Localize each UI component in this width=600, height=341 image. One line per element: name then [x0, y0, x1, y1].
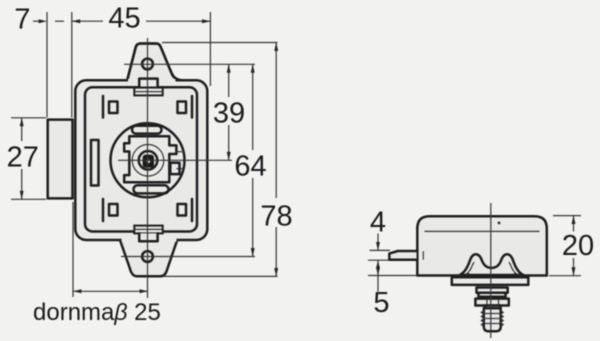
svg-text:20: 20 [562, 230, 594, 262]
body outline (front housing) [75, 80, 207, 240]
knob inner ring [139, 151, 158, 170]
side body [417, 216, 547, 275]
clip bottom-left [103, 199, 118, 221]
dim 4 extension lines [368, 250, 390, 260]
knob button plate [124, 136, 176, 182]
svg-text:dornmaβ 25: dornmaβ 25 [33, 299, 161, 326]
spring clip (wavy) [460, 254, 524, 275]
dornmass extension line [72, 202, 74, 297]
knob top slot [132, 126, 162, 134]
top ear screw hole [142, 59, 153, 70]
dim 78 line [274, 43, 278, 277]
knob center block [143, 155, 154, 168]
side body dot [498, 222, 501, 225]
bottom mounting ear [119, 237, 178, 276]
svg-text:78: 78 [260, 201, 292, 233]
vertical centerline [147, 38, 149, 298]
dim 7 leader and arrow [33, 19, 64, 23]
dim 78 extension lines [162, 43, 278, 277]
dim 45 line [72, 19, 211, 23]
top center tab wide box [134, 88, 162, 96]
clip top-left [103, 96, 118, 118]
base plate [452, 277, 529, 285]
latch bolt (left) [48, 120, 73, 199]
extension line x210.4 (45 dim) [209, 12, 211, 86]
neck [485, 306, 501, 309]
dim 20 line [572, 216, 576, 276]
dim 27 line [20, 118, 24, 200]
hex nut [475, 299, 508, 306]
dim 39 line [227, 64, 231, 160]
svg-text:39: 39 [213, 98, 245, 130]
dim 20 extension lines [549, 216, 581, 276]
washer 2 [479, 293, 506, 297]
dim 5 line and arrows [376, 260, 380, 291]
base plate ticks [460, 276, 521, 278]
svg-text:5: 5 [373, 287, 389, 319]
dim 27 extension lines [11, 118, 46, 200]
ear fill patches to open body edge at ear bases [128, 79, 176, 83]
latch tongue (side) [389, 251, 416, 260]
tongue root hidden line [422, 251, 424, 259]
latch guide bracket left [91, 140, 99, 186]
bottom ear screw hole [142, 251, 153, 262]
svg-text:64: 64 [234, 151, 266, 183]
svg-text:7: 7 [14, 4, 30, 36]
extension line x71.8 (7/45 dim) [71, 12, 73, 118]
svg-text:4: 4 [370, 207, 386, 239]
bottom center tab wide box [134, 226, 162, 234]
threaded screw shank [481, 308, 503, 331]
knob bottom slot [134, 185, 169, 193]
button right tab lines [170, 152, 184, 174]
top center tab narrow [139, 79, 157, 87]
bottom hole horizontal centerline / extension [121, 256, 255, 258]
side body panel line [425, 230, 540, 232]
dornmass dim line [73, 289, 148, 293]
washer 1 [477, 288, 508, 293]
knob outer circle [111, 123, 185, 197]
top hole horizontal centerline / extension [124, 63, 255, 65]
clip bottom-right [178, 199, 193, 221]
dim 5 extension line [368, 275, 417, 277]
dim 4 line and arrows [376, 234, 380, 251]
knob middle ring [132, 145, 164, 177]
svg-text:27: 27 [7, 142, 39, 174]
extension line x47 (7 dim) [46, 12, 48, 118]
top mounting ear [127, 44, 182, 85]
side view centerline [490, 203, 492, 338]
dim 64 line [251, 64, 255, 256]
svg-text:45: 45 [108, 3, 140, 35]
inner rim plate [85, 87, 197, 231]
knob horizontal centerline [118, 159, 232, 161]
bottom center tab narrow [139, 233, 157, 241]
clip top-right [178, 96, 193, 118]
